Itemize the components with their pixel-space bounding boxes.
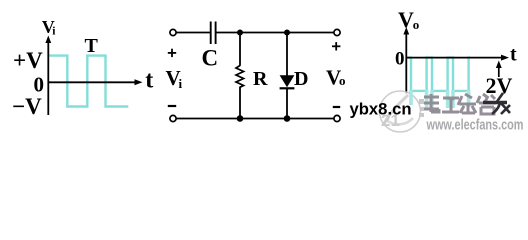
svg-text:o: o [413, 17, 420, 32]
svg-text:−V: −V [12, 94, 42, 119]
output terminal top-right (+) [334, 29, 340, 35]
svg-text:R: R [253, 68, 268, 90]
wire resistor to bottom rail [239, 87, 241, 119]
wire capacitor to output terminal (top rail) [216, 32, 334, 34]
svg-text:+V: +V [13, 48, 43, 73]
watermark logo circle [380, 91, 421, 132]
svg-text:0: 0 [34, 73, 45, 97]
junction node at bottom of D [284, 115, 291, 122]
svg-text:i: i [179, 76, 183, 91]
watermark Chinese logotype (stylized glyph blocks) [424, 93, 510, 114]
wire top node to resistor [239, 33, 241, 66]
input terminal bottom-left (-) [170, 115, 176, 121]
resistor R [236, 66, 244, 88]
watermark Chinese last character (dark) [483, 93, 510, 114]
diode D [280, 75, 295, 88]
right graph vertical axis (Vo axis wire) [403, 27, 409, 94]
minus sign at input bottom terminal [168, 105, 176, 107]
left graph vertical axis (Vi axis wire) [45, 36, 51, 116]
right graph horizontal axis (t axis wire) [406, 55, 509, 61]
junction node at top of D [284, 30, 290, 36]
watermark dots [419, 99, 424, 117]
svg-text:o: o [339, 73, 346, 88]
wire (faint cyan pulse tails under watermark) [411, 90, 469, 108]
svg-text:t: t [145, 67, 153, 93]
svg-text:ybx8.cn: ybx8.cn [350, 100, 412, 119]
wire top node to diode [286, 33, 288, 77]
output terminal bottom-right (-) [334, 115, 340, 121]
plus sign at input top terminal [168, 49, 176, 57]
minus sign at output bottom terminal [333, 106, 340, 108]
svg-text:C: C [202, 46, 219, 71]
capacitor C [211, 22, 216, 45]
left graph horizontal axis (t axis wire) [48, 79, 143, 85]
svg-text:V: V [398, 7, 414, 32]
junction node at bottom of R [237, 115, 244, 122]
svg-text:0: 0 [395, 49, 405, 70]
input waveform Vi (square wave) [48, 56, 128, 107]
junction node at top of R [237, 30, 243, 36]
svg-text:www.elecfans.com: www.elecfans.com [426, 118, 524, 134]
wire diode to bottom rail [286, 88, 288, 118]
svg-text:T: T [85, 35, 99, 57]
wire input terminal to capacitor [176, 32, 210, 34]
amplitude arrow (2V measure) [496, 61, 502, 78]
bottom rail wire [176, 118, 334, 120]
svg-text:D: D [294, 68, 308, 90]
svg-text:t: t [510, 44, 517, 66]
plus sign at output top terminal [332, 42, 340, 50]
input terminal top-left (+) [170, 29, 176, 35]
output waveform Vo (clamped square wave) [406, 58, 470, 91]
